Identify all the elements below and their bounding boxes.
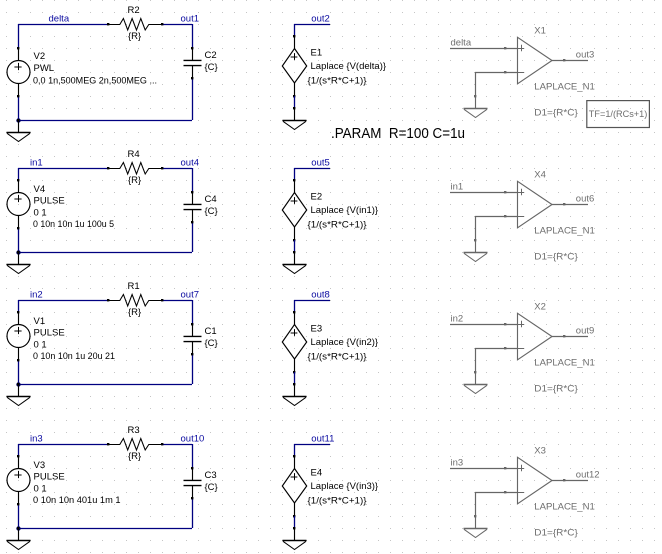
svg-text:{C}: {C} xyxy=(205,62,218,73)
svg-text:LAPLACE_N1: LAPLACE_N1 xyxy=(534,226,595,237)
svg-text:in1: in1 xyxy=(451,181,464,192)
svg-text:C2: C2 xyxy=(205,50,217,61)
svg-text:PULSE: PULSE xyxy=(34,328,65,339)
svg-text:out10: out10 xyxy=(181,433,205,444)
svg-text:Laplace {V(in2)}: Laplace {V(in2)} xyxy=(311,337,379,348)
svg-text:out6: out6 xyxy=(576,194,595,205)
svg-text:{C}: {C} xyxy=(205,338,218,349)
svg-text:X2: X2 xyxy=(534,301,546,312)
svg-text:X1: X1 xyxy=(534,25,546,36)
svg-text:PULSE: PULSE xyxy=(34,196,65,207)
svg-text:0 10n 10n 1u 100u 5: 0 10n 10n 1u 100u 5 xyxy=(33,219,114,230)
svg-text:R1: R1 xyxy=(128,281,140,292)
svg-text:E1: E1 xyxy=(311,47,323,58)
svg-text:0 1: 0 1 xyxy=(34,483,47,494)
svg-text:in3: in3 xyxy=(451,457,464,468)
svg-text:E4: E4 xyxy=(311,467,323,478)
svg-text:0,0 1n,500MEG 2n,500MEG ...: 0,0 1n,500MEG 2n,500MEG ... xyxy=(33,76,157,87)
svg-text:{1/(s*R*C+1)}: {1/(s*R*C+1)} xyxy=(308,496,367,507)
svg-text:out4: out4 xyxy=(181,157,200,168)
svg-text:in3: in3 xyxy=(30,433,43,444)
svg-text:LAPLACE_N1: LAPLACE_N1 xyxy=(534,358,595,369)
svg-text:X4: X4 xyxy=(534,169,546,180)
svg-text:out5: out5 xyxy=(311,157,330,168)
svg-text:{R}: {R} xyxy=(128,451,141,462)
svg-text:out11: out11 xyxy=(311,433,334,444)
svg-text:C1: C1 xyxy=(205,326,217,337)
svg-text:{1/(s*R*C+1)}: {1/(s*R*C+1)} xyxy=(308,76,367,87)
svg-text:E2: E2 xyxy=(311,191,323,202)
svg-text:Laplace {V(in1)}: Laplace {V(in1)} xyxy=(311,205,379,216)
svg-text:V2: V2 xyxy=(34,51,46,62)
svg-text:delta: delta xyxy=(49,13,70,24)
svg-text:R2: R2 xyxy=(128,5,140,16)
svg-text:out8: out8 xyxy=(311,289,330,300)
svg-text:C4: C4 xyxy=(205,194,217,205)
svg-text:R3: R3 xyxy=(128,425,140,436)
svg-text:Laplace {V(in3)}: Laplace {V(in3)} xyxy=(311,481,379,492)
svg-text:PWL: PWL xyxy=(34,63,55,74)
svg-text:E3: E3 xyxy=(311,323,323,334)
svg-text:R4: R4 xyxy=(128,149,140,160)
svg-text:D1={R*C}: D1={R*C} xyxy=(534,251,578,262)
svg-text:C3: C3 xyxy=(205,470,217,481)
svg-text:X3: X3 xyxy=(534,445,546,456)
svg-text:{R}: {R} xyxy=(128,175,141,186)
svg-text:delta: delta xyxy=(451,37,472,48)
svg-text:out7: out7 xyxy=(181,289,200,300)
svg-text:in2: in2 xyxy=(451,313,464,324)
svg-text:{R}: {R} xyxy=(128,307,141,318)
svg-text:D1={R*C}: D1={R*C} xyxy=(534,107,578,118)
svg-text:out3: out3 xyxy=(576,50,595,61)
svg-text:.PARAM R=100 C=1u: .PARAM R=100 C=1u xyxy=(331,125,465,142)
svg-text:V4: V4 xyxy=(34,184,46,195)
svg-text:{C}: {C} xyxy=(205,482,218,493)
svg-text:out2: out2 xyxy=(311,13,330,24)
svg-text:TF=1/(RCs+1): TF=1/(RCs+1) xyxy=(589,109,648,120)
svg-text:Laplace {V(delta)}: Laplace {V(delta)} xyxy=(311,61,387,72)
svg-text:{C}: {C} xyxy=(205,206,218,217)
svg-text:{1/(s*R*C+1)}: {1/(s*R*C+1)} xyxy=(308,220,367,231)
svg-text:V3: V3 xyxy=(34,460,46,471)
svg-text:{1/(s*R*C+1)}: {1/(s*R*C+1)} xyxy=(308,352,367,363)
svg-text:LAPLACE_N1: LAPLACE_N1 xyxy=(534,82,595,93)
svg-text:out9: out9 xyxy=(576,326,595,337)
svg-text:D1={R*C}: D1={R*C} xyxy=(534,527,578,538)
svg-text:in2: in2 xyxy=(30,289,43,300)
svg-text:LAPLACE_N1: LAPLACE_N1 xyxy=(534,502,595,513)
svg-text:0 10n 10n 1u 20u 21: 0 10n 10n 1u 20u 21 xyxy=(33,351,115,362)
svg-text:out1: out1 xyxy=(181,13,200,24)
svg-text:V1: V1 xyxy=(34,316,46,327)
svg-text:0 1: 0 1 xyxy=(34,339,47,350)
svg-text:out12: out12 xyxy=(576,470,600,481)
svg-text:0 1: 0 1 xyxy=(34,207,47,218)
svg-text:0 10n 10n 401u 1m 1: 0 10n 10n 401u 1m 1 xyxy=(33,495,121,506)
svg-text:{R}: {R} xyxy=(128,31,141,42)
svg-text:PULSE: PULSE xyxy=(34,472,65,483)
svg-text:D1={R*C}: D1={R*C} xyxy=(534,383,578,394)
svg-text:in1: in1 xyxy=(30,157,43,168)
